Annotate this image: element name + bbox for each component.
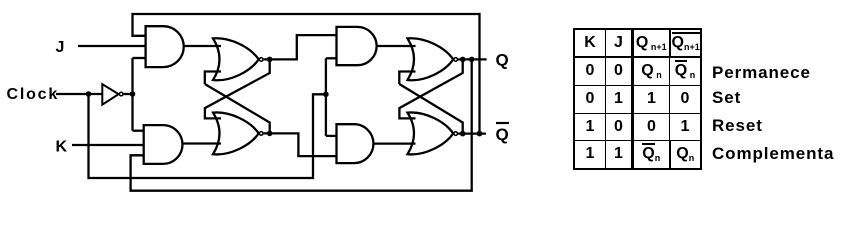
node J label: [56, 39, 65, 56]
wire slave clock to AND3: [326, 57, 338, 59]
node Q label: [496, 51, 509, 70]
junction clock split before inverter: [86, 91, 92, 97]
and-gate A2 master K: [144, 125, 183, 164]
wire inverted clock to AND2: [133, 130, 144, 132]
wire Q feedback bottom loop: [131, 59, 472, 190]
svg-text:Clock: Clock: [7, 86, 60, 103]
wire inverted clock to AND1: [133, 57, 146, 59]
svg-text:Q: Q: [496, 125, 509, 144]
wire slave clock to AND4: [326, 135, 338, 137]
wire A3 output to NOR3: [377, 45, 416, 47]
wire J input: [78, 45, 146, 47]
wire Q output: [458, 58, 487, 60]
wire K input: [72, 144, 144, 146]
row label Reset: [712, 116, 763, 136]
junction N1 output: [267, 57, 273, 63]
node Clock label: [7, 86, 60, 103]
inverter clock NOT gate: [102, 84, 123, 105]
wire cross N2out to N1 input diagonal: [205, 84, 270, 133]
nor-gate N1 master: [213, 38, 263, 80]
wire cross N1out to N2 input diagonal: [205, 59, 270, 118]
wire Qbar feedback top loop: [133, 14, 480, 134]
wire inverter output to master clock rail: [124, 93, 134, 95]
row label Complementa: [712, 144, 834, 164]
wire true clock down-route: [89, 94, 326, 178]
nor-gate N2 master: [213, 112, 263, 154]
wire inverted clock rail: [131, 58, 133, 131]
svg-text:J: J: [56, 39, 65, 56]
wire A1 output to NOR1: [184, 45, 221, 47]
junction slave clock rail: [323, 92, 329, 98]
wire cross N4out to N3 input diagonal: [399, 84, 462, 134]
row label Permanece: [712, 63, 811, 83]
row label Set: [712, 88, 741, 108]
wire slave clock rail vertical: [325, 58, 327, 136]
wire NOR3 lower input bracket: [399, 72, 415, 85]
wire Qbar output: [458, 132, 486, 134]
nor-gate N4 slave: [408, 112, 458, 154]
and-gate A3 slave: [337, 27, 377, 65]
junction N4 out cross dot: [460, 131, 466, 137]
wire Clock input: [56, 93, 102, 95]
wire N2 output to AND4: [264, 133, 337, 156]
wire A2 output to NOR2: [183, 142, 222, 144]
truth table: [573, 28, 700, 168]
junction N2 output: [267, 131, 273, 137]
junction N3 out cross dot: [460, 57, 466, 63]
svg-text:K: K: [56, 139, 68, 156]
nor-gate N3 slave: [408, 38, 458, 80]
wire NOR1 lower input bracket: [205, 72, 221, 85]
wire cross N3out to N4 input diagonal: [399, 59, 462, 118]
wire N1 output to AND3: [264, 35, 337, 59]
and-gate A4 slave: [337, 124, 374, 163]
junction inverted clock node: [130, 91, 136, 97]
svg-text:Q: Q: [496, 51, 509, 70]
wire A4 output to NOR4: [374, 142, 416, 144]
junction Q feedback dot: [469, 57, 475, 63]
junction Qbar feedback dot: [477, 131, 483, 137]
node K label: [56, 139, 68, 156]
node Qbar label: [496, 123, 510, 144]
and-gate A1 master J: [146, 26, 184, 67]
